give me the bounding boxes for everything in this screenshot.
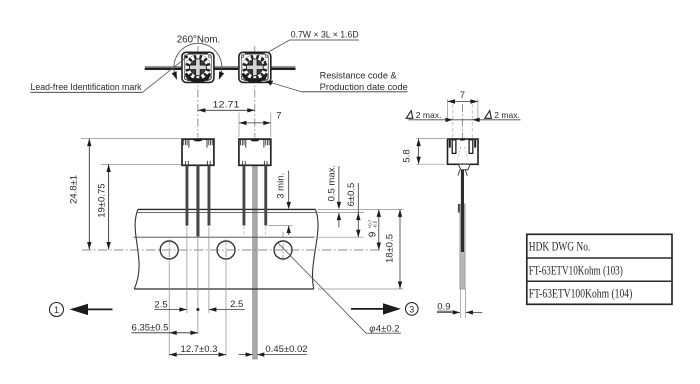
sprocket hole 1: [160, 240, 178, 261]
label 260°Nom.: [177, 33, 221, 45]
svg-text:2.5: 2.5: [154, 300, 167, 311]
dimension 12.7±0.3: [169, 344, 226, 357]
side view centerline: [462, 104, 464, 176]
drawing number table: [527, 234, 672, 304]
long gray lead of component 2: [253, 165, 258, 359]
svg-text:3: 3: [409, 304, 414, 314]
svg-text:2.5: 2.5: [230, 299, 243, 310]
svg-text:4±0.2: 4±0.2: [376, 323, 400, 334]
feed direction arrow 1 (circled): [50, 303, 113, 317]
svg-text:260°Nom.: 260°Nom.: [177, 33, 221, 45]
component 1 body (front view): [182, 138, 214, 165]
carrier tape (front view): [134, 209, 318, 289]
dimension 6.35±0.5: [132, 322, 198, 335]
svg-text:Production date code: Production date code: [320, 82, 408, 92]
svg-text:1: 1: [54, 305, 59, 315]
trimmer T2 rotor: [242, 55, 267, 81]
component 1 leads: [186, 165, 211, 236]
component 2 body (front view): [239, 138, 271, 165]
svg-text:6.35±0.5: 6.35±0.5: [132, 322, 169, 333]
svg-text:12.7±0.3: 12.7±0.3: [181, 344, 218, 355]
svg-text:9: 9: [367, 231, 378, 237]
svg-text:19±0.75: 19±0.75: [96, 183, 107, 217]
trimmer T2 body (top view): [239, 52, 271, 82]
component 2 outer leads: [243, 165, 268, 225]
svg-text:Resistance code &: Resistance code &: [320, 70, 397, 80]
feed direction arrow 3 (circled): [351, 303, 418, 316]
lead-free identification mark dot: [185, 56, 188, 59]
svg-text:6±0.5: 6±0.5: [346, 183, 357, 207]
svg-text:7: 7: [460, 90, 465, 101]
dimension 6±0.5: [316, 183, 364, 238]
sprocket hole 2: [217, 240, 235, 261]
svg-text:24.8±1: 24.8±1: [69, 175, 80, 204]
svg-text:FT-63ETV100Kohm (104): FT-63ETV100Kohm (104): [529, 286, 633, 301]
dimension 18±0.5: [318, 209, 404, 289]
dimension 19±0.75: [96, 165, 181, 250]
label + leader + arrowhead: Resistance code / Production date code: [265, 70, 407, 92]
dimension 24.8±1: [69, 139, 182, 250]
sprocket hole 3: [274, 232, 292, 261]
label + leader: 0.7W x 3L x 1.6D: [267, 30, 359, 53]
tape edge-on (side view): [460, 204, 466, 318]
svg-text:-0.5: -0.5: [372, 220, 377, 228]
trimmer T1 body (top view): [182, 52, 214, 82]
side view center lead: [458, 170, 464, 252]
svg-text:φ: φ: [369, 323, 375, 334]
tape hole centerline: [82, 249, 381, 251]
dimension 7 (side view): [448, 90, 478, 122]
dimension 3 min.: [269, 171, 293, 236]
svg-text:12.71: 12.71: [213, 99, 240, 110]
svg-text:0.9: 0.9: [437, 302, 450, 313]
svg-text:FT-63ETV10Kohm (103): FT-63ETV10Kohm (103): [529, 263, 623, 278]
trimmer T1 rotor: [185, 55, 210, 81]
trimmer T2 centerline: [254, 46, 256, 138]
dimension 7 (front body width): [239, 111, 282, 137]
side view body: [448, 139, 479, 165]
svg-text:0.5 max.: 0.5 max.: [326, 165, 337, 201]
svg-text:2 max.: 2 max.: [416, 110, 442, 120]
trimmer T1 centerline: [197, 46, 199, 138]
svg-text:2 max.: 2 max.: [494, 110, 520, 120]
dimension 5.8 (body height, side): [401, 139, 445, 165]
svg-text:18±0.5: 18±0.5: [384, 234, 395, 263]
dimension 0.5 max.: [326, 165, 341, 228]
leader + label φ4±0.2 (sprocket hole dia): [278, 243, 402, 335]
dimension 2 max. (lead sweep): [406, 104, 520, 139]
260 degree rotation arc: [172, 43, 225, 80]
dimension 0.9 (tape thickness): [437, 302, 482, 315]
side view lead standoff: [458, 164, 470, 175]
dimension 0.45±0.02 (lead thickness): [239, 344, 308, 357]
svg-text:5.8: 5.8: [401, 149, 412, 162]
svg-text:Lead-free Identification mark: Lead-free Identification mark: [31, 82, 142, 92]
tape axis line (top view): [145, 66, 296, 70]
dimension 9 +0.7/-0.5: [367, 209, 381, 250]
svg-text:0.7W × 3L × 1.6D: 0.7W × 3L × 1.6D: [291, 30, 359, 40]
label + leader: Lead-free Identification mark: [31, 58, 187, 93]
svg-text:HDK DWG No.: HDK DWG No.: [529, 239, 591, 254]
svg-text:7: 7: [276, 111, 281, 122]
extension lines below front view: [169, 227, 266, 357]
dimension 12.71 (pocket pitch): [198, 99, 255, 112]
dimension 2.5 / 2.5: [154, 299, 244, 312]
svg-text:0.45±0.02: 0.45±0.02: [265, 344, 307, 355]
svg-text:3 min.: 3 min.: [276, 173, 287, 199]
